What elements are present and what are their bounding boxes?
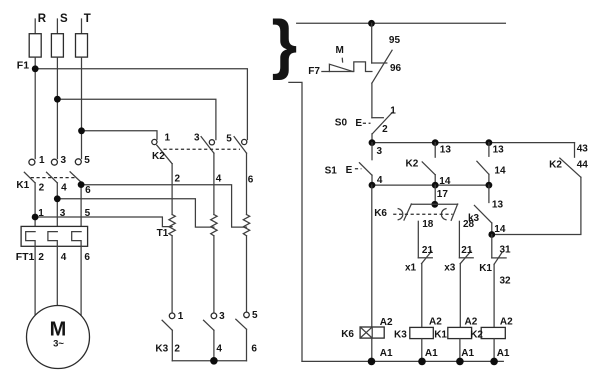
svg-text:F7: F7 xyxy=(308,66,320,77)
svg-text:4: 4 xyxy=(216,173,222,184)
K2 mechanical link (dashed) xyxy=(164,148,241,150)
wire branch R to K2 contact 5 xyxy=(35,69,247,140)
wire tap line 1 to T1 winding 1 xyxy=(35,217,172,227)
contactor K3 pole 3 xyxy=(204,311,226,331)
svg-text:4: 4 xyxy=(61,183,67,194)
wire K1nc to K2 coil xyxy=(493,264,495,327)
wire branch S to K2 contact 3 xyxy=(57,99,216,139)
wire 44 down to node 14 xyxy=(492,177,581,234)
svg-text:32: 32 xyxy=(500,276,512,287)
wire rail14 to K6 coil xyxy=(371,185,373,327)
wire K3 coil to rail xyxy=(421,339,423,362)
svg-text:18: 18 xyxy=(422,219,434,230)
svg-text:2: 2 xyxy=(174,343,180,354)
svg-text:K6: K6 xyxy=(374,208,387,219)
node 13b xyxy=(486,139,493,146)
node 14b xyxy=(486,182,493,189)
wire K1 pole5 to FT1 xyxy=(80,182,82,231)
wire FT1 to motor W xyxy=(80,246,82,315)
contactor K1 pole 5 xyxy=(70,155,90,182)
svg-text:43: 43 xyxy=(577,143,589,154)
svg-text:1: 1 xyxy=(165,132,171,143)
autotransformer T1 winding 3 xyxy=(243,215,249,236)
svg-text:E: E xyxy=(355,118,362,129)
FT1 heater element 2 xyxy=(48,232,57,247)
wire K6 contact bar xyxy=(411,203,457,205)
svg-text:95: 95 xyxy=(389,35,401,46)
wire tap line 6 to T1 winding 3 xyxy=(81,185,246,227)
svg-text:A2: A2 xyxy=(429,317,442,328)
wire T1 winding1 to K3 pole 1 xyxy=(171,236,173,313)
svg-text:31: 31 xyxy=(500,245,512,256)
K1 mechanical link (dashed) xyxy=(31,177,77,179)
wire rail 13 xyxy=(372,142,575,144)
svg-text:1: 1 xyxy=(38,208,44,219)
svg-text:5: 5 xyxy=(84,155,90,166)
wire K2 pole1 to T1 winding 1 xyxy=(171,164,173,215)
svg-text:K3: K3 xyxy=(394,330,407,341)
contact K1 NC 31-32 xyxy=(479,235,511,287)
wire tap line 4 to T1 winding 2 xyxy=(57,199,214,227)
wire FT1 to motor U xyxy=(34,246,36,315)
svg-text:S1: S1 xyxy=(325,165,338,176)
svg-text:1: 1 xyxy=(178,311,184,322)
fuse F1 pole S xyxy=(51,34,63,57)
wire K2 coil to rail xyxy=(493,339,495,362)
wire T1 winding2 to K3 pole 3 xyxy=(213,236,215,313)
node junction on S xyxy=(54,96,61,103)
F7 trip linkage xyxy=(308,45,372,77)
autotransformer T1 winding 2 xyxy=(211,215,217,236)
contactor K2 pole 5 xyxy=(226,134,246,154)
svg-text:K2: K2 xyxy=(152,151,165,162)
svg-text:K6: K6 xyxy=(341,329,354,340)
svg-text:44: 44 xyxy=(577,160,589,171)
svg-text:K2: K2 xyxy=(549,160,562,171)
fuse F1 pole T xyxy=(76,34,88,57)
wire K3 star bar xyxy=(172,360,246,362)
svg-text:3: 3 xyxy=(60,208,66,219)
fuse F1 pole R xyxy=(29,34,41,57)
contact K2 NO 13-14 xyxy=(406,143,451,187)
svg-text:A1: A1 xyxy=(380,348,393,359)
wire FT1 to motor V xyxy=(56,246,58,305)
node on top rail xyxy=(368,20,375,27)
wire K1 pole3 to FT1 xyxy=(56,183,58,232)
svg-text:K2: K2 xyxy=(470,330,483,341)
svg-text:14: 14 xyxy=(494,165,506,176)
svg-text:14: 14 xyxy=(494,224,506,235)
node A1 K2 xyxy=(490,358,498,366)
node junction 6 xyxy=(78,181,85,188)
contactor K1 pole 3 xyxy=(47,155,67,183)
FT1 heater element 3 xyxy=(72,232,81,247)
wire K1 pole1 to FT1 xyxy=(34,183,36,232)
contact K2 NO 43-44 xyxy=(549,143,588,178)
node junction on T xyxy=(78,127,85,134)
svg-text:K1: K1 xyxy=(16,180,29,191)
wire K3 pole5 down xyxy=(246,329,248,361)
svg-text:E: E xyxy=(346,165,353,176)
svg-text:4: 4 xyxy=(61,252,67,263)
pushbutton S1 NO 3-4 xyxy=(325,143,383,186)
wire 18 down xyxy=(417,221,419,257)
wire node 17 xyxy=(434,185,436,204)
svg-text:13: 13 xyxy=(440,144,452,155)
motor M 3-phase xyxy=(27,306,90,369)
svg-text:A2: A2 xyxy=(465,317,478,328)
node A1 K1 xyxy=(456,358,464,366)
autotransformer T1 winding 1 xyxy=(169,215,175,236)
svg-text:S0: S0 xyxy=(335,118,348,129)
svg-text:21: 21 xyxy=(461,245,473,256)
svg-text:3: 3 xyxy=(61,155,67,166)
coil K3 xyxy=(394,317,442,360)
wire K3 pole1 down xyxy=(171,330,173,361)
timed contact K6 17-18 xyxy=(398,204,411,220)
svg-text:M: M xyxy=(336,45,344,56)
wire rail to F7 contact xyxy=(371,23,373,63)
contact x1 NC 21 xyxy=(405,245,433,274)
FT1 heater element 1 xyxy=(26,232,35,247)
wire k3 to node 14 xyxy=(491,223,493,235)
node A1 K3 xyxy=(418,358,426,366)
svg-text:x1: x1 xyxy=(405,263,417,274)
node A1 K6 xyxy=(368,358,376,366)
wire F7 to S0 xyxy=(371,83,373,118)
svg-text:A2: A2 xyxy=(380,317,393,328)
svg-text:21: 21 xyxy=(422,245,434,256)
wire R fuse to K1 contact 1 xyxy=(34,57,36,159)
contactor K1 pole 1 xyxy=(16,155,45,191)
wire branch T to K2 contact 1 xyxy=(82,131,158,140)
svg-text:2: 2 xyxy=(175,173,181,184)
node junction 4 xyxy=(54,195,61,202)
svg-text:K1: K1 xyxy=(479,263,492,274)
wire T phase down to fuse xyxy=(81,19,83,34)
wire control bottom rail xyxy=(302,360,503,362)
svg-text:T1: T1 xyxy=(157,228,169,239)
svg-text:A2: A2 xyxy=(500,317,513,328)
svg-text:}: } xyxy=(272,7,298,81)
wire K6 coil to rail xyxy=(371,338,373,361)
K6 link (dashed) xyxy=(393,213,452,215)
wire S phase down to fuse xyxy=(56,19,58,34)
coil K6 (timer) xyxy=(341,317,393,359)
svg-text:6: 6 xyxy=(84,252,90,263)
svg-text:3~: 3~ xyxy=(53,339,64,350)
contact K3 NO 13-14 aux xyxy=(468,185,506,235)
svg-text:x3: x3 xyxy=(444,263,456,274)
wire K2 pole3 to T1 winding 2 xyxy=(213,153,215,214)
node 3 xyxy=(369,139,376,146)
svg-text:5: 5 xyxy=(226,134,232,145)
wire K2 pole5 to T1 winding 3 xyxy=(246,153,248,214)
wire left control rail xyxy=(289,82,302,361)
contact x3 NC 21 xyxy=(444,245,473,274)
svg-text:A1: A1 xyxy=(497,348,510,359)
svg-text:3: 3 xyxy=(194,133,200,144)
wire 28 down xyxy=(458,221,460,257)
svg-text:S: S xyxy=(60,13,68,25)
wire K1 coil to rail xyxy=(459,339,461,362)
svg-text:6: 6 xyxy=(85,185,91,196)
wire control top rail xyxy=(297,22,506,24)
svg-text:5: 5 xyxy=(85,208,91,219)
wire rail 14 xyxy=(372,184,489,186)
node star point xyxy=(210,357,218,365)
svg-text:6: 6 xyxy=(251,343,257,354)
svg-text:17: 17 xyxy=(437,189,449,200)
contactor K2 pole 3 xyxy=(194,133,214,154)
svg-text:T: T xyxy=(84,13,91,25)
coil K1 xyxy=(434,317,478,360)
svg-text:M: M xyxy=(50,319,67,341)
wire T fuse to K1 contact 5 xyxy=(81,57,83,159)
wire K3 pole3 down xyxy=(213,330,215,361)
node junction 1 xyxy=(32,214,39,221)
pushbutton S0 NC 1-2 xyxy=(335,105,396,135)
node 17 xyxy=(431,201,438,208)
svg-text:13: 13 xyxy=(493,144,505,155)
svg-text:96: 96 xyxy=(390,63,402,74)
wire T1 winding3 to K3 pole 5 xyxy=(246,236,248,313)
contactor K3 pole 5 xyxy=(236,310,258,330)
wire S0 to node 3 xyxy=(371,134,373,143)
wire x3 to K1 coil xyxy=(459,264,461,328)
node 14a xyxy=(432,182,439,189)
svg-text:1: 1 xyxy=(390,105,396,116)
svg-text:1: 1 xyxy=(39,155,45,166)
svg-text:K2: K2 xyxy=(406,158,419,169)
wire S fuse to K1 contact 3 xyxy=(56,57,58,159)
svg-text:R: R xyxy=(38,13,47,25)
svg-text:k3: k3 xyxy=(468,213,480,224)
svg-text:K1: K1 xyxy=(434,330,447,341)
svg-text:A1: A1 xyxy=(425,348,438,359)
svg-text:K3: K3 xyxy=(155,344,168,355)
contactor K2 pole 1 xyxy=(152,132,172,163)
svg-text:5: 5 xyxy=(252,310,258,321)
contact NO 13-14 second xyxy=(477,143,506,186)
svg-text:13: 13 xyxy=(492,199,504,210)
node junction on R xyxy=(32,65,39,72)
node 13a xyxy=(432,139,439,146)
svg-text:3: 3 xyxy=(219,311,225,322)
svg-text:2: 2 xyxy=(38,252,44,263)
thermal overload FT1 body xyxy=(21,226,88,246)
svg-text:4: 4 xyxy=(216,343,222,354)
node 14c xyxy=(488,231,495,238)
wire x1 to K3 coil xyxy=(421,264,423,328)
svg-text:F1: F1 xyxy=(17,59,29,71)
svg-text:2: 2 xyxy=(382,124,388,135)
coil K2 xyxy=(470,317,513,360)
svg-text:3: 3 xyxy=(377,146,383,157)
svg-text:A1: A1 xyxy=(461,348,474,359)
node 4 xyxy=(369,182,376,189)
wire R phase down to fuse xyxy=(34,19,36,34)
svg-text:FT1: FT1 xyxy=(16,251,35,263)
svg-text:2: 2 xyxy=(39,183,45,194)
overload contact F7 95-96 xyxy=(372,35,402,83)
svg-text:6: 6 xyxy=(248,175,254,186)
svg-text:4: 4 xyxy=(377,175,383,186)
timed contact K6 17-28 xyxy=(441,204,457,220)
contactor K3 pole 1 xyxy=(155,311,183,355)
